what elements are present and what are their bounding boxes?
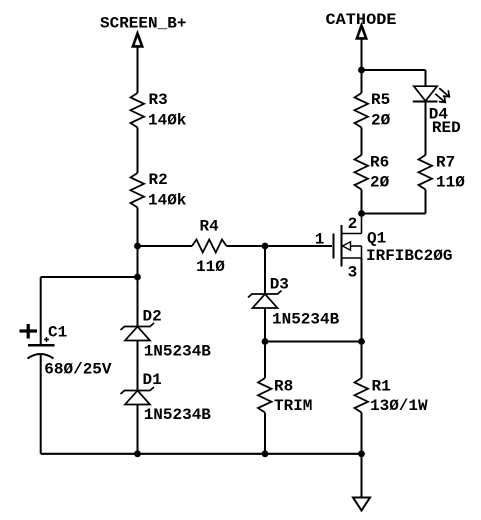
svg-text:R5: R5 [371, 91, 390, 109]
svg-text:R3: R3 [149, 91, 168, 109]
svg-text:3: 3 [348, 264, 358, 282]
resistor R1 [355, 378, 429, 416]
wire [137, 341, 139, 391]
ground [353, 498, 370, 511]
node junction bottom R8 [262, 450, 269, 457]
svg-text:R8: R8 [274, 378, 293, 396]
zener diode D3 [248, 276, 340, 329]
transistor Q1 [334, 214, 453, 267]
node junction source/R1 [358, 338, 365, 345]
wire [40, 277, 42, 344]
svg-text:2Ø: 2Ø [371, 112, 391, 130]
wire [362, 69, 426, 71]
resistor R7 [419, 154, 466, 192]
net label CATHODE [326, 11, 397, 29]
node junction drain [358, 210, 365, 217]
wire [425, 70, 427, 86]
wire [362, 213, 426, 215]
wire [264, 308, 266, 342]
svg-text:2Ø: 2Ø [370, 174, 390, 192]
svg-text:11Ø: 11Ø [436, 174, 465, 192]
svg-text:68Ø/25V: 68Ø/25V [44, 361, 112, 379]
wire [137, 208, 139, 327]
wire [41, 276, 138, 278]
svg-text:14Øk: 14Øk [148, 112, 187, 130]
node junction at R2/R4 [134, 243, 141, 250]
zener diode D1 [121, 371, 212, 424]
wire [264, 413, 266, 454]
resistor R4 [192, 218, 227, 277]
wire bottom rail [41, 453, 362, 455]
wire [138, 245, 193, 247]
wire [361, 413, 363, 454]
pin 3 label [348, 264, 358, 282]
port symbol SCREEN_B+ [133, 34, 142, 47]
wire [361, 258, 363, 342]
wire [425, 190, 427, 214]
svg-text:2: 2 [348, 215, 358, 233]
resistor R6 [355, 154, 390, 192]
node junction gate/D3 [262, 243, 269, 250]
wire [264, 246, 266, 294]
wire [227, 245, 333, 247]
pin 2 label [348, 215, 358, 233]
wire mid rail [265, 341, 362, 343]
svg-text:C1: C1 [48, 324, 67, 342]
wire [137, 47, 139, 93]
node junction D3/R8 [262, 338, 269, 345]
wire [361, 190, 363, 214]
port symbol CATHODE [357, 26, 366, 39]
net label SCREEN_B+ [100, 15, 186, 33]
node junction bottom left [134, 450, 141, 457]
svg-text:1N5234B: 1N5234B [272, 311, 340, 329]
svg-text:13Ø/1W: 13Ø/1W [370, 397, 428, 415]
resistor R3 [131, 91, 187, 130]
svg-text:11Ø: 11Ø [196, 258, 225, 276]
svg-text:R2: R2 [149, 171, 168, 189]
svg-text:R4: R4 [200, 218, 220, 236]
wire [361, 454, 363, 498]
svg-text:R1: R1 [372, 378, 391, 396]
capacitor C1 [20, 324, 112, 379]
svg-text:IRFIBC2ØG: IRFIBC2ØG [366, 247, 452, 265]
wire [361, 39, 363, 93]
wire [40, 354, 42, 454]
svg-text:D1: D1 [143, 371, 162, 389]
wire [361, 342, 363, 379]
svg-text:D3: D3 [270, 276, 289, 294]
svg-text:1N5234B: 1N5234B [144, 406, 212, 424]
node junction bottom right [358, 450, 365, 457]
wire [425, 102, 427, 156]
svg-text:SCREEN_B+: SCREEN_B+ [100, 15, 186, 33]
resistor R5 [355, 91, 391, 130]
svg-text:14Øk: 14Øk [148, 192, 187, 210]
svg-text:R7: R7 [436, 154, 455, 172]
pin 1 label [315, 231, 325, 249]
svg-text:D2: D2 [143, 308, 162, 326]
svg-text:Q1: Q1 [367, 230, 386, 248]
zener diode D2 [121, 308, 212, 361]
svg-text:RED: RED [432, 119, 461, 137]
svg-text:1N5234B: 1N5234B [144, 343, 212, 361]
wire [264, 342, 266, 379]
svg-text:TRIM: TRIM [274, 397, 312, 415]
svg-text:1: 1 [315, 231, 325, 249]
node junction C1 tap [134, 274, 141, 281]
resistor R2 [131, 171, 187, 210]
wire [137, 128, 139, 174]
wire [137, 405, 139, 454]
LED D4 [413, 86, 461, 137]
wire [361, 128, 363, 156]
node junction cathode split [358, 67, 365, 74]
resistor R8 [258, 378, 312, 416]
svg-text:R6: R6 [370, 154, 389, 172]
